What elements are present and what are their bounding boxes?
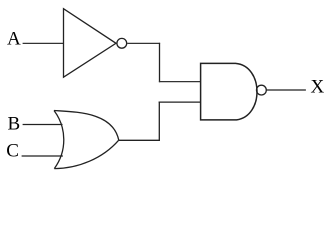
wire NAND lower input (159, 101, 201, 103)
wire X output (267, 89, 306, 91)
wire U1 output horizontal (127, 42, 160, 44)
wire U1 output vertical drop (159, 43, 161, 82)
wire B input (23, 124, 63, 126)
inverter U1 triangle (64, 9, 117, 78)
svg-text:A: A (7, 29, 21, 50)
nand-gate U3 bubble (257, 85, 267, 95)
wire C input (22, 155, 63, 157)
wire U2 output (119, 139, 160, 141)
svg-text:B: B (8, 114, 21, 135)
svg-text:X: X (311, 77, 325, 98)
or-gate U2 (54, 111, 119, 169)
wire A input (23, 42, 64, 44)
inverter U1 bubble (117, 38, 127, 48)
svg-text:C: C (6, 141, 19, 162)
wire U2 vertical riser (158, 102, 160, 141)
nand-gate U3 body (201, 63, 257, 120)
wire NAND upper input (159, 81, 201, 83)
